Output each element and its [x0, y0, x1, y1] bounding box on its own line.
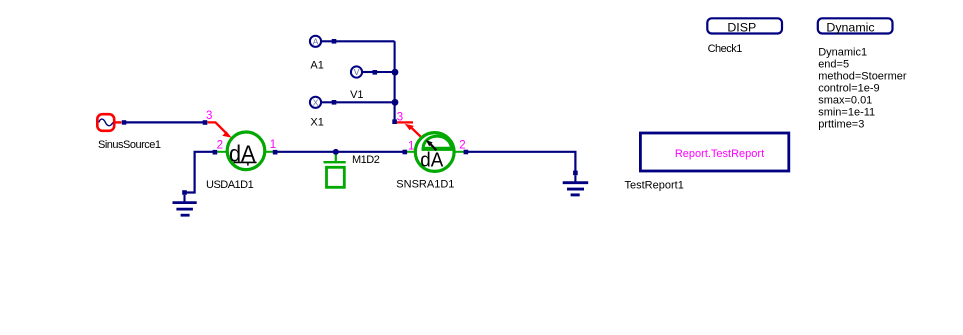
bus wire vertical — [394, 41, 396, 121]
svg-text:V1: V1 — [350, 89, 363, 101]
svg-text:USDA1D1: USDA1D1 — [206, 179, 254, 191]
wire X1 to bus — [334, 101, 395, 103]
pin 2 junction square — [213, 150, 218, 155]
svg-text:SinusSource1: SinusSource1 — [98, 139, 161, 151]
svg-text:smin=1e-11: smin=1e-11 — [818, 107, 875, 119]
ammeter SNSRA1D1 — [415, 133, 454, 172]
pin 2 stub of SNSRA1D1 — [453, 151, 465, 153]
pin 1 junction square of SNSRA1D1 — [403, 150, 408, 155]
pin square V1 — [373, 70, 378, 75]
device M1D2 — [324, 155, 346, 188]
svg-text:Dynamic: Dynamic — [826, 20, 874, 34]
node 3 junction (left) — [203, 120, 208, 125]
ground (right) — [563, 175, 589, 195]
svg-text:TestReport1: TestReport1 — [625, 180, 684, 192]
pin square X1 — [332, 100, 337, 105]
svg-text:end=5: end=5 — [818, 59, 849, 71]
wire source to node 3 — [124, 121, 205, 123]
svg-text:1: 1 — [270, 139, 276, 151]
block DISP — [707, 18, 782, 34]
wire SNSRA1D1 pin2 to ground — [466, 152, 576, 172]
pin 1 stub of SNSRA1D1 — [405, 151, 416, 153]
red arrow into USDA1D1 — [208, 122, 232, 137]
svg-text:DISP: DISP — [727, 20, 756, 34]
wire pin2 to ground — [185, 152, 214, 193]
svg-text:M1D2: M1D2 — [352, 154, 380, 166]
source SinusSource1 symbol — [97, 114, 121, 131]
junction dot on bus at X1 — [392, 99, 399, 106]
svg-text:smax=0.01: smax=0.01 — [818, 95, 872, 107]
ammeter USDA1D1 — [227, 132, 265, 170]
ground (left) — [173, 195, 197, 215]
probe A1 — [310, 36, 334, 47]
pin 1 junction square — [273, 150, 278, 155]
probe X1 — [310, 97, 334, 108]
svg-text:3: 3 — [206, 110, 212, 122]
svg-text:Check1: Check1 — [708, 43, 743, 55]
svg-text:V: V — [354, 67, 360, 77]
svg-text:method=Stoermer: method=Stoermer — [818, 71, 907, 83]
red arrow from SNSRA1D1 to node 3 — [397, 122, 421, 136]
pin 1 stub — [264, 151, 277, 153]
svg-text:SNSRA1D1: SNSRA1D1 — [396, 179, 454, 191]
svg-text:X1: X1 — [310, 117, 323, 129]
svg-text:prttime=3: prttime=3 — [818, 119, 864, 131]
ground junction square (right) — [573, 171, 578, 176]
block Dynamic — [818, 18, 893, 34]
pin 2 junction square of SNSRA1D1 — [464, 150, 469, 155]
pin 2 stub — [215, 151, 228, 153]
svg-text:Dynamic1: Dynamic1 — [818, 47, 867, 59]
wire V1 to bus — [376, 71, 394, 73]
svg-text:2: 2 — [217, 140, 223, 152]
svg-text:dA: dA — [420, 148, 443, 171]
probe V1 — [351, 66, 376, 77]
block Report.TestReport — [640, 133, 788, 171]
svg-text:1: 1 — [408, 140, 414, 152]
junction dot M1D2 — [333, 149, 339, 155]
svg-text:A: A — [313, 37, 319, 47]
svg-text:Report.TestReport: Report.TestReport — [675, 148, 764, 160]
svg-text:A1: A1 — [310, 59, 323, 71]
parameters of Dynamic1 — [818, 47, 907, 131]
pin square of SinusSource1 — [122, 120, 127, 125]
svg-text:X: X — [313, 98, 319, 108]
node 3 junction (right) — [392, 119, 397, 124]
wire A1 to bus — [334, 40, 395, 42]
ground junction square (left) — [182, 190, 187, 195]
wire USDA1D1 to SNSRA1D1 — [275, 151, 405, 153]
junction dot on bus at V1 — [392, 69, 399, 76]
svg-text:control=1e-9: control=1e-9 — [818, 83, 879, 95]
pin square A1 — [332, 39, 337, 44]
